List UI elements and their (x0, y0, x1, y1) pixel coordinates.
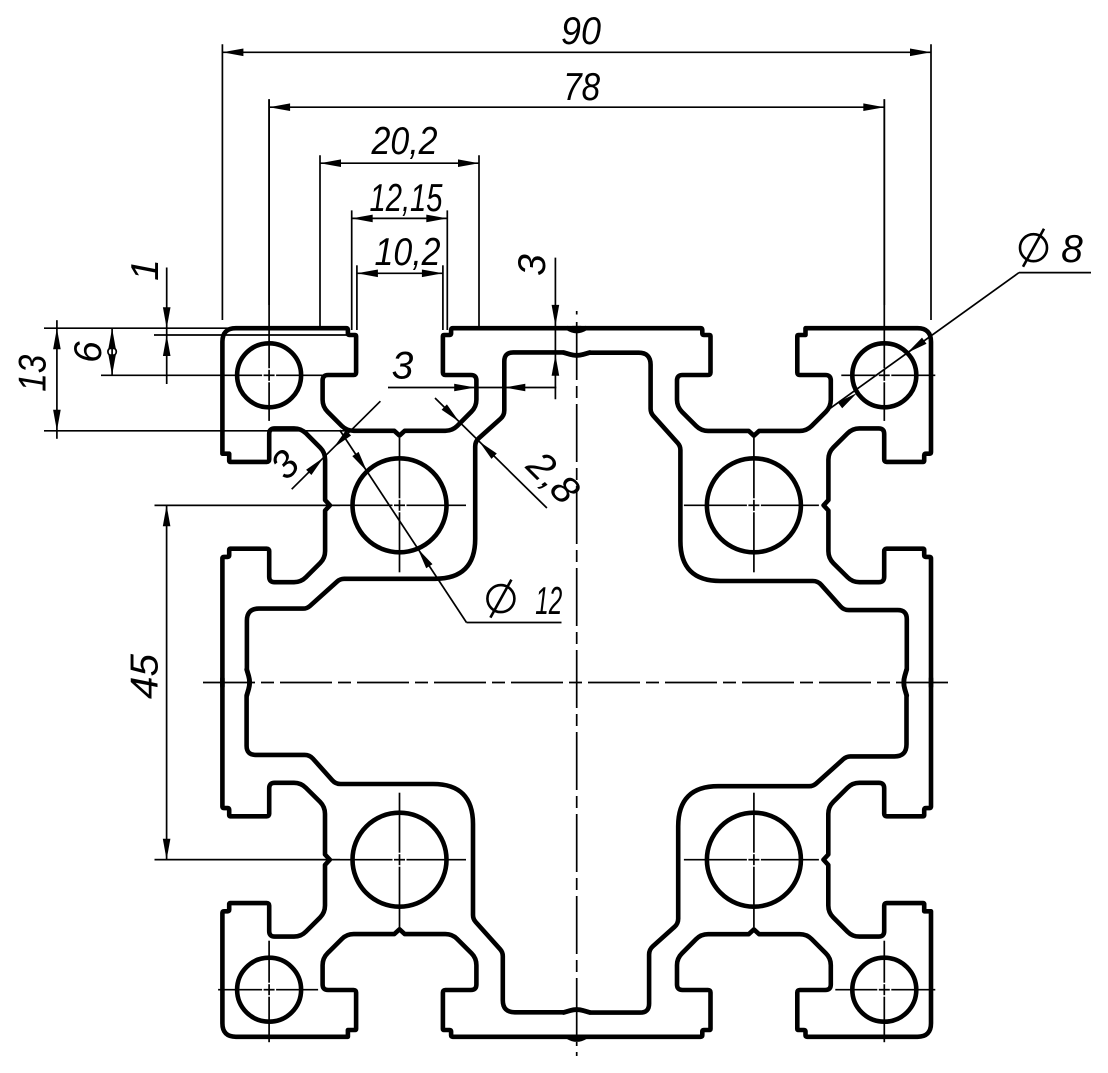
hole D12 TL crosshair v-top (399, 438, 401, 498)
arrowhead dim 1 bottom (163, 335, 171, 356)
arrowhead leader D8 inner (838, 393, 857, 408)
hole D8 TL crosshair v-top (268, 99, 270, 368)
arrowhead dim 2,8 upper (442, 404, 460, 421)
horizontal centerline (203, 682, 950, 684)
arrowhead dim 78 left (269, 103, 290, 111)
diameter symbol for 8 (1020, 234, 1047, 261)
arrowhead dim 12,15 left (352, 215, 373, 223)
dim 6 line (111, 328, 113, 375)
svg-text:78: 78 (563, 66, 600, 109)
dim 13/6/1 ext top (44, 327, 230, 329)
central cavity boundary quarter 1 (247, 352, 590, 695)
core hole D12 bottom-left (353, 813, 447, 907)
hole D12 BL crosshair h-left (155, 859, 393, 861)
dim 20,2 ext left (319, 155, 321, 330)
central cavity boundary quarter 4 (247, 670, 590, 1013)
face center mark bottom (568, 1037, 586, 1040)
core hole D12 top-left (353, 458, 447, 552)
profile outer boundary quarter 2 (573, 328, 931, 686)
dim 20,2 ext right (478, 155, 480, 330)
arrowhead leader D8 outer (907, 338, 926, 353)
svg-text:6: 6 (67, 341, 110, 363)
dim 12,15 ext right (446, 210, 448, 330)
hole D12 TL crosshair h-left (155, 504, 393, 506)
dim 1 ext bottom (154, 334, 348, 336)
arrowhead dim 3 chamfer lower (334, 430, 352, 448)
dim 90 ext right (930, 44, 932, 320)
dim 78 line (269, 106, 884, 108)
arrowhead dim 78 right (863, 103, 884, 111)
dim 13 line (56, 320, 58, 439)
vertical centerline top dot (576, 311, 578, 315)
dim 12,15 line (352, 217, 448, 219)
svg-text:45: 45 (124, 654, 167, 699)
arrowhead leader D12 upper (352, 452, 367, 472)
arrowhead dim 90 left (222, 49, 243, 57)
dim 78 ext right (883, 99, 885, 305)
dim 3 wall line vertical (554, 258, 556, 400)
corner hole D8 bottom-left (237, 958, 301, 1022)
dim 3 chamfer line (292, 401, 381, 489)
profile outer boundary quarter 3 (573, 679, 931, 1037)
arrowhead dim 13 bottom (53, 410, 61, 431)
arrowhead dim 20,2 left (320, 159, 341, 167)
svg-text:1: 1 (124, 259, 167, 281)
arrowhead dim 3 chamfer upper (306, 458, 324, 476)
arrowhead dim 3 horizontal left (454, 384, 475, 392)
dim 78 ext left (268, 99, 270, 305)
central cavity boundary quarter 3 (564, 670, 907, 1013)
dim 90 line (222, 51, 931, 53)
dim 12,15 ext left (351, 210, 353, 330)
profile outer boundary quarter 1 (222, 328, 580, 686)
svg-text:3: 3 (392, 345, 414, 388)
hole D8 BL crosshair v-top (268, 941, 270, 983)
dim 45 ext bottom (155, 859, 341, 861)
arrowhead dim 12,15 right (426, 215, 447, 223)
arrowhead dim 2,8 lower (479, 442, 497, 459)
svg-text:90: 90 (561, 10, 601, 53)
arrowhead dim 90 right (910, 49, 931, 57)
arrowhead dim 3 horizontal right (504, 384, 525, 392)
face center mark top (568, 328, 586, 331)
arrowhead leader D12 lower (418, 549, 433, 569)
core hole D12 bottom-right (707, 813, 801, 907)
dim 90 ext left (221, 44, 223, 320)
svg-text:3: 3 (511, 254, 554, 276)
leader D8 diagonal (820, 273, 1019, 416)
arrowhead dim 20,2 right (458, 159, 479, 167)
arrowhead dim 6 bottom (108, 354, 116, 375)
svg-text:8: 8 (1061, 228, 1083, 271)
vertical centerline bottom dot (576, 1052, 578, 1056)
leader D8 underline (1019, 272, 1091, 274)
arrowhead dim 3 vertical bottom (552, 355, 560, 376)
central cavity boundary quarter 2 (564, 353, 907, 696)
hole D8 BR crosshair h-left (835, 989, 877, 991)
diameter symbol for 12 (487, 585, 514, 612)
hole D12 BR crosshair v-top (753, 793, 755, 853)
svg-text:20,2: 20,2 (371, 120, 438, 163)
profile outer boundary quarter 4 (222, 679, 580, 1037)
svg-text:13: 13 (12, 354, 55, 391)
arrowhead dim 45 top (163, 505, 171, 526)
hole D12 BR crosshair h-left (684, 859, 747, 861)
hole D12 BL crosshair v-top (399, 793, 401, 853)
leader D12 underline (467, 622, 562, 624)
vertical centerline (576, 322, 578, 1046)
hole D8 TR crosshair v-top (883, 99, 885, 368)
dim 1 line (166, 268, 168, 385)
dim 20,2 line (320, 162, 479, 164)
dim 3 wall line horizontal (388, 387, 556, 389)
dim 45 ext top (155, 504, 341, 506)
svg-text:12: 12 (535, 580, 562, 623)
dim 10,2 line (357, 272, 443, 274)
hole D8 TL crosshair h-left (101, 374, 262, 376)
hole D8 BL crosshair h-left (218, 989, 262, 991)
hole D12 TR crosshair v-top (753, 438, 755, 498)
dim 2,8 chamfer line (435, 398, 547, 508)
svg-text:10,2: 10,2 (375, 231, 441, 274)
arrowhead dim 6 top (108, 328, 116, 349)
hole D8 BR crosshair v-top (883, 941, 885, 983)
hole D8 TR crosshair h-left (841, 374, 877, 376)
arrowhead dim 3 vertical top (552, 305, 560, 326)
core hole D12 top-right (707, 458, 801, 552)
dim 6 center dot (108, 348, 116, 356)
corner hole D8 top-right (852, 343, 916, 407)
dim 10,2 ext right (442, 265, 444, 330)
dim 13 ext bottom (44, 430, 348, 432)
arrowhead dim 13 top (53, 328, 61, 349)
hole D12 TR crosshair h-left (684, 504, 747, 506)
dim 10,2 ext left (356, 265, 358, 330)
leader D12 diagonal (340, 430, 467, 623)
arrowhead dim 10,2 right (422, 270, 443, 278)
arrowhead dim 45 bottom (163, 839, 171, 860)
corner hole D8 top-left (237, 343, 301, 407)
arrowhead dim 1 top (163, 307, 171, 328)
dim 45 line (166, 505, 168, 859)
arrowhead dim 10,2 left (357, 270, 378, 278)
svg-text:12,15: 12,15 (370, 177, 443, 220)
corner hole D8 bottom-right (852, 958, 916, 1022)
